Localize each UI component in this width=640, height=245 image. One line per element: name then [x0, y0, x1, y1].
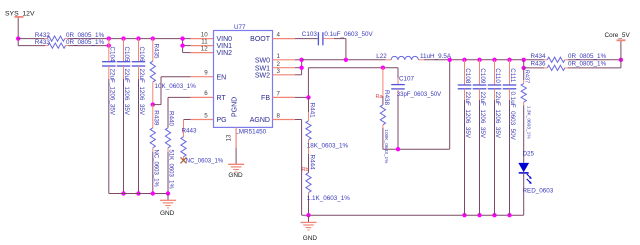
svg-text:22uF_1206_35V: 22uF_1206_35V [494, 92, 501, 139]
svg-text:1: 1 [277, 53, 281, 60]
svg-text:11: 11 [201, 38, 208, 45]
svg-text:22uF_1206_35V: 22uF_1206_35V [108, 69, 115, 116]
svg-text:NC_0603_1%: NC_0603_1% [186, 158, 224, 164]
svg-text:PGND: PGND [232, 97, 239, 117]
svg-text:9: 9 [204, 70, 208, 77]
svg-text:13: 13 [226, 134, 233, 141]
svg-text:1.1K_0603_1%: 1.1K_0603_1% [307, 195, 350, 202]
svg-text:22uF_1206_35V: 22uF_1206_35V [138, 69, 145, 116]
svg-text:PG: PG [217, 117, 227, 124]
svg-text:L22: L22 [376, 53, 387, 60]
svg-text:R435: R435 [153, 44, 160, 60]
svg-text:22uF_1206_35V: 22uF_1206_35V [464, 92, 471, 139]
svg-text:18K_0603_1%: 18K_0603_1% [307, 143, 349, 150]
svg-text:C103: C103 [302, 31, 318, 38]
svg-text:0R_0805_1%: 0R_0805_1% [66, 39, 105, 46]
svg-text:R444: R444 [308, 155, 315, 171]
svg-text:EN: EN [217, 74, 227, 81]
svg-text:0.1uF_0603_50V: 0.1uF_0603_50V [324, 31, 373, 38]
svg-text:3: 3 [277, 68, 281, 75]
svg-text:11uH_9.5A: 11uH_9.5A [420, 53, 452, 60]
svg-text:8: 8 [277, 113, 281, 120]
svg-text:Ra: Ra [376, 94, 384, 100]
svg-text:1.3K_0603_1%: 1.3K_0603_1% [526, 106, 532, 140]
svg-text:VIN0: VIN0 [217, 36, 233, 43]
svg-text:SW2: SW2 [255, 72, 270, 79]
svg-text:VIN2: VIN2 [217, 50, 233, 57]
svg-text:R438: R438 [383, 90, 390, 106]
svg-text:AGND: AGND [250, 117, 270, 124]
svg-text:22uF_1206_35V: 22uF_1206_35V [123, 69, 130, 116]
svg-text:GND: GND [228, 172, 243, 179]
svg-text:2: 2 [277, 61, 281, 68]
svg-text:C110: C110 [494, 68, 501, 83]
svg-text:0.1uF_0603_50V: 0.1uF_0603_50V [509, 92, 516, 141]
svg-text:VIN1: VIN1 [217, 43, 233, 50]
svg-text:NC_0603_1%: NC_0603_1% [153, 150, 159, 188]
svg-text:BOOT: BOOT [250, 36, 271, 43]
svg-text:C109: C109 [479, 68, 486, 84]
svg-text:U77: U77 [234, 24, 246, 31]
svg-text:51K_0603_1%: 51K_0603_1% [168, 150, 174, 190]
svg-text:10: 10 [201, 31, 208, 38]
svg-text:22uF_1206_35V: 22uF_1206_35V [479, 92, 486, 139]
svg-text:R432: R432 [35, 32, 51, 39]
svg-text:Core_5V: Core_5V [605, 32, 631, 39]
svg-text:R441: R441 [308, 103, 315, 119]
svg-text:R433: R433 [35, 39, 51, 46]
svg-text:GND: GND [160, 210, 175, 217]
svg-text:R440: R440 [168, 111, 175, 127]
svg-text:0R_0805_1%: 0R_0805_1% [66, 32, 105, 39]
svg-text:R443: R443 [182, 128, 198, 135]
svg-text:C107: C107 [399, 76, 415, 83]
svg-text:SW1: SW1 [255, 65, 270, 72]
svg-text:0R_0805_1%: 0R_0805_1% [568, 61, 607, 68]
svg-text:5: 5 [204, 112, 208, 119]
svg-text:12: 12 [201, 45, 208, 52]
svg-text:SW0: SW0 [255, 57, 270, 64]
svg-text:C111: C111 [509, 68, 516, 83]
svg-text:R439: R439 [153, 110, 160, 126]
svg-text:C106: C106 [138, 47, 145, 63]
svg-text:RT: RT [217, 95, 227, 102]
svg-text:LMR51450: LMR51450 [235, 129, 266, 136]
svg-text:R436: R436 [531, 61, 547, 68]
svg-text:R437: R437 [524, 70, 530, 83]
svg-text:GND: GND [303, 235, 318, 242]
svg-text:7: 7 [277, 91, 281, 98]
svg-text:C108: C108 [464, 68, 471, 84]
svg-text:Rb: Rb [302, 167, 309, 173]
svg-text:C104: C104 [108, 47, 115, 63]
svg-text:6: 6 [204, 90, 208, 97]
svg-text:100K_0603_1%: 100K_0603_1% [383, 129, 389, 164]
svg-text:0R_0805_1%: 0R_0805_1% [568, 53, 607, 60]
svg-text:D25: D25 [523, 150, 535, 157]
svg-text:33pF_0603_50V: 33pF_0603_50V [397, 92, 441, 98]
svg-text:R434: R434 [531, 53, 547, 60]
svg-text:RED_0603: RED_0603 [523, 188, 554, 195]
svg-text:FB: FB [261, 95, 270, 102]
svg-text:4: 4 [277, 32, 281, 39]
svg-text:C105: C105 [123, 47, 130, 63]
